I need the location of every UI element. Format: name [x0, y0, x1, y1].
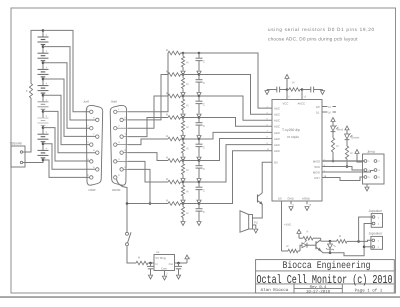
- wire battery bottom to J750 pin 2: [25, 160, 43, 163]
- ground filter right: [321, 89, 323, 91]
- ground AGND row 5 cap: [197, 157, 201, 161]
- ground AGND row 8 cap: [197, 222, 201, 226]
- junction SCK green LED: [346, 165, 349, 168]
- ground AGND row 8 resistor: [181, 222, 185, 226]
- junction row 7 cap: [198, 181, 201, 184]
- power VCC arrow: [285, 75, 289, 79]
- wire tap 3 to J1 pin: [43, 63, 90, 128]
- wire sense 4 J2 to divider row 4: [128, 118, 168, 137]
- svg-text:R: R: [339, 234, 341, 238]
- capacitor C9 VCC bypass: [270, 89, 277, 91]
- resistor R1a series: [168, 51, 181, 55]
- junction node cell tap 5: [42, 94, 45, 97]
- resistor R19 green LED: [345, 146, 348, 159]
- junction row 3 cap: [198, 95, 201, 98]
- junction row 8 cap: [198, 202, 201, 205]
- J2 pin 3: [114, 143, 117, 146]
- battery cell B4: [42, 79, 44, 86]
- svg-text:C: C: [203, 189, 205, 193]
- J1 pin 1: [90, 110, 93, 113]
- ground U1 GND pin: [290, 201, 292, 204]
- svg-text:T-ny260 dip: T-ny260 dip: [282, 128, 300, 132]
- svg-text:MOSI: MOSI: [313, 170, 320, 174]
- resistor R22 alarm series: [330, 240, 337, 242]
- svg-text:GND: GND: [288, 197, 294, 201]
- ground filter left: [267, 89, 270, 91]
- power VCC arrow Jprog: [355, 150, 359, 154]
- svg-text:F: F: [26, 89, 28, 93]
- resistor R2a series: [168, 73, 181, 77]
- wire row 5 to ADC4 pin: [199, 132, 272, 139]
- junction row 2 cap: [198, 73, 201, 76]
- battery cell B5: [42, 95, 44, 102]
- resistor R6a series: [168, 159, 181, 163]
- junction node cell tap 2: [42, 45, 45, 48]
- wire J2 pin stub: [123, 119, 128, 121]
- connector J5 Jspeaker2: [371, 236, 383, 249]
- svg-text:C: C: [203, 146, 205, 150]
- wire sense 8 J2 to divider row 8: [128, 169, 150, 203]
- resistor R7b shunt: [182, 182, 184, 185]
- J3 pin 1: [364, 160, 367, 163]
- svg-text:R: R: [166, 134, 168, 138]
- wire J2 pin stub: [117, 144, 128, 146]
- resistor R8a series: [168, 202, 181, 206]
- wire reg common: [164, 271, 166, 276]
- svg-text:ADC: ADC: [274, 119, 280, 123]
- resistor R3a series: [168, 94, 181, 98]
- svg-text:750mAh: 750mAh: [10, 142, 23, 146]
- capacitor C1: [198, 53, 200, 58]
- junction MISO red LED: [332, 160, 335, 163]
- wire row 8 to ADC7 pin: [199, 151, 272, 204]
- svg-text:Jcell: Jcell: [83, 100, 89, 104]
- svg-text:ADC: ADC: [274, 137, 280, 141]
- wire tap 7 to J1 pin: [43, 128, 90, 161]
- wire bottom rail to J4 pin 2 and J5 pin 2: [330, 224, 372, 256]
- wire tap 8 to J1 pin: [43, 144, 96, 169]
- svg-text:Out: Out: [169, 263, 174, 266]
- svg-text:R: R: [307, 231, 309, 234]
- J3 pin 5: [364, 176, 367, 179]
- junction row 5 divider: [182, 138, 185, 141]
- junction reg input cap: [149, 262, 152, 265]
- ground reg input cap: [148, 275, 152, 279]
- wire D3 to Q2 base: [307, 244, 316, 246]
- svg-text:DB9F: DB9F: [89, 188, 97, 192]
- svg-text:R: R: [187, 61, 189, 65]
- wire reg output: [175, 262, 188, 264]
- resistor R5b shunt: [182, 139, 184, 142]
- capacitor C6: [198, 161, 200, 166]
- junction AVCC rail: [301, 88, 304, 91]
- svg-text:Octal Cell Monitor (c) 2010: Octal Cell Monitor (c) 2010: [256, 273, 392, 287]
- J1 pin 5: [90, 176, 93, 179]
- ground AGND row 6 resistor: [181, 179, 185, 183]
- svg-text:SCK: SCK: [314, 165, 320, 169]
- connector J750 750mAh battery pack: [11, 146, 25, 167]
- LED D1 Red: [331, 118, 335, 122]
- svg-text:+: +: [46, 146, 48, 150]
- resistor R21 alarm base: [282, 250, 289, 252]
- svg-text:AVCC: AVCC: [298, 102, 306, 106]
- J2 pin 9: [120, 168, 123, 171]
- wire tap 6 to J1 pin: [43, 111, 96, 152]
- resistor R3b shunt: [182, 96, 184, 99]
- junction zener bottom: [329, 251, 332, 254]
- junction row 6 cap: [198, 159, 201, 162]
- wire J2 pin stub: [123, 152, 128, 154]
- junction row 5 cap: [198, 138, 201, 141]
- resistor R20 reg input: [136, 261, 148, 265]
- wire tap 9 to J1 pin: [43, 160, 90, 177]
- junction node cell tap 6: [42, 110, 45, 113]
- ground U1 AGND pin: [306, 201, 308, 204]
- svg-text:+: +: [46, 114, 48, 118]
- wire switch net down: [126, 204, 128, 233]
- svg-text:+: +: [46, 82, 48, 86]
- wire U1 D0 bottom to alarm driver: [281, 201, 283, 251]
- svg-text:choose ADC, D0 pins during pcb: choose ADC, D0 pins during pcb layout: [268, 37, 358, 42]
- speaker PZ1 piezo: [249, 215, 253, 230]
- svg-text:C: C: [203, 103, 205, 107]
- J1 pin 9: [96, 168, 99, 171]
- J1 pin 6: [96, 118, 99, 121]
- svg-text:or equiv: or equiv: [287, 135, 299, 139]
- J1 pin 8: [96, 151, 99, 154]
- U1 AVCC pin stub: [301, 90, 303, 100]
- wire row 2 to ADC1 pin: [199, 75, 272, 115]
- wire tap 4 to J1 pin: [43, 79, 96, 136]
- junction row 1 divider: [182, 52, 185, 55]
- capacitor C11 reg input: [150, 263, 152, 266]
- svg-text:5V Reg: 5V Reg: [156, 256, 166, 260]
- ground AGND row 4 cap: [197, 136, 201, 140]
- power VCC arrow reg output: [186, 259, 188, 263]
- svg-text:D0: D0: [274, 161, 278, 165]
- battery cell B8: [42, 144, 44, 151]
- junction node cell tap 3: [42, 62, 45, 65]
- capacitor C2: [198, 75, 200, 80]
- ground AGND row 2 resistor: [181, 93, 185, 97]
- resistor R6b shunt: [182, 161, 184, 164]
- svg-text:R: R: [166, 177, 168, 181]
- wire J2 pin stub: [117, 127, 128, 129]
- svg-text:R: R: [287, 244, 289, 248]
- wire sense 6 J2 to divider row 6: [128, 153, 168, 161]
- power VCC arrow alarm: [298, 234, 300, 239]
- U1 serial pin stubs D0 D1: [322, 106, 328, 108]
- wire Q1 emitter to speaker: [253, 204, 263, 218]
- wire fuse to J-batt-pack pin 1: [25, 98, 31, 152]
- J1 pin 4: [90, 160, 93, 163]
- svg-text:R: R: [187, 168, 189, 172]
- resistor R5a series: [168, 137, 181, 141]
- connector J2 DB9M Jbatt: [110, 105, 126, 185]
- svg-text:R: R: [337, 144, 339, 148]
- ground AGND row 2 cap: [197, 93, 201, 97]
- svg-text:ADC: ADC: [274, 125, 280, 129]
- resistor R18 red LED: [331, 138, 334, 152]
- resistor R2b shunt: [182, 75, 184, 78]
- ground reg common: [162, 276, 166, 280]
- wire Q2 collector rail: [320, 240, 322, 241]
- resistor R1b shunt: [182, 53, 184, 56]
- junction row 6 divider: [182, 159, 185, 162]
- svg-text:R: R: [187, 190, 189, 194]
- resistor R17 AVCC filter: [287, 89, 289, 91]
- svg-text:Jprog: Jprog: [367, 150, 375, 154]
- wire RST to Jprog pin 5: [322, 177, 364, 181]
- svg-text:R: R: [166, 156, 168, 160]
- wire row 8 left extension to switch tap: [127, 203, 168, 205]
- J3 pin 4: [374, 169, 377, 172]
- svg-text:R: R: [187, 211, 189, 215]
- svg-text:using serial resistors D0 D1 p: using serial resistors D0 D1 pins 19,20: [268, 27, 375, 32]
- capacitor C5: [198, 139, 200, 144]
- connector J1 DB9F cell harness: [86, 105, 102, 185]
- svg-text:D1: D1: [316, 111, 320, 115]
- svg-text:C: C: [203, 124, 205, 128]
- J2 pin 2: [114, 127, 117, 130]
- wire Q2 emitter to bottom rail: [321, 251, 330, 253]
- svg-text:+: +: [46, 49, 48, 53]
- ground AGND row 3 resistor: [181, 114, 185, 118]
- regulator U2 5V Reg: [154, 255, 175, 271]
- capacitor C7: [198, 182, 200, 187]
- svg-text:R: R: [166, 199, 168, 203]
- battery cell B6: [42, 111, 44, 118]
- ground Jprog: [366, 184, 368, 187]
- resistor R4b shunt: [182, 118, 184, 121]
- wire J2 pin 5 drop to power switch net: [117, 179, 128, 204]
- J1 pin 7: [96, 135, 99, 138]
- wire sense 3 J2 to divider row 3: [128, 96, 168, 128]
- wire J2 pin stub: [123, 136, 128, 138]
- junction row 7 divider: [182, 181, 185, 184]
- battery cell B7: [42, 128, 44, 135]
- svg-text:VCC: VCC: [283, 102, 289, 106]
- wire row 1 to ADC0 pin: [199, 53, 272, 108]
- svg-text:AGND: AGND: [302, 197, 310, 201]
- resistor R4a series: [168, 116, 181, 120]
- junction node cell tap 1: [42, 29, 45, 32]
- switch SW1 power: [126, 232, 129, 235]
- junction speaker low side: [363, 246, 366, 249]
- wire J2 pin stub: [117, 111, 128, 113]
- J2 pin 6: [120, 118, 123, 121]
- svg-text:+: +: [46, 33, 48, 37]
- svg-text:ADC: ADC: [274, 143, 280, 147]
- J2 pin 7: [120, 135, 123, 138]
- capacitor C8: [198, 204, 200, 209]
- capacitor C4: [198, 118, 200, 123]
- svg-text:R: R: [187, 104, 189, 108]
- svg-text:C: C: [203, 60, 205, 64]
- wire tap 1 to J1 pin: [43, 30, 90, 111]
- junction node cell tap 4: [42, 78, 45, 81]
- J3 pin 3: [364, 169, 367, 172]
- LED D3 alarm indicator: [300, 245, 302, 251]
- LED D2 Green: [345, 126, 349, 130]
- svg-text:C: C: [203, 81, 205, 85]
- junction row 1 cap: [198, 52, 201, 55]
- J1 pin 2: [90, 127, 93, 130]
- svg-text:Biocca Engineering: Biocca Engineering: [282, 260, 370, 272]
- svg-text:R: R: [166, 48, 168, 52]
- ground AGND row 1 resistor: [181, 71, 185, 75]
- wire sense 5 J2 to divider row 5: [128, 139, 168, 145]
- svg-text:DB9M: DB9M: [112, 188, 121, 192]
- ground AGND row 5 resistor: [181, 157, 185, 161]
- battery cell B2: [42, 47, 44, 54]
- junction node cell tap 7: [42, 126, 45, 129]
- J2 pin 5: [114, 176, 117, 179]
- junction zener top: [329, 240, 332, 243]
- svg-text:ADC: ADC: [274, 107, 280, 111]
- wire row 4 to ADC3 pin: [199, 118, 272, 127]
- wire sense 1 J2 to divider row 1: [128, 53, 168, 112]
- ground AGND row 1 cap: [197, 71, 201, 75]
- svg-text:D0: D0: [316, 105, 320, 109]
- connector J3 Jprog ISP header: [363, 154, 385, 184]
- svg-text:+: +: [46, 98, 48, 102]
- capacitor C10 AVCC bypass: [302, 89, 311, 91]
- junction row 2 divider: [182, 73, 185, 76]
- junction VCC rail: [286, 88, 289, 91]
- wire row 7 to ADC6 pin: [199, 145, 272, 182]
- wire MISO to Jprog pin 1: [322, 160, 365, 162]
- ground speaker: [254, 229, 258, 233]
- svg-text:R: R: [166, 91, 168, 95]
- zener D4 alarm clamp: [329, 241, 331, 244]
- svg-text:Green: Green: [351, 136, 360, 140]
- junction row 3 divider: [182, 95, 185, 98]
- svg-text:R: R: [293, 81, 295, 85]
- svg-text:Jspeaker: Jspeaker: [369, 209, 384, 213]
- wire sense 2 J2 to divider row 2: [128, 75, 168, 120]
- junction row 8 divider: [182, 202, 185, 205]
- wire row 3 to ADC2 pin: [199, 96, 272, 120]
- svg-text:R: R: [187, 82, 189, 86]
- svg-text:Jspeaker: Jspeaker: [369, 232, 384, 236]
- svg-text:Red: Red: [337, 128, 343, 132]
- ground AGND row 3 cap: [197, 114, 201, 118]
- J2 pin 8: [120, 151, 123, 154]
- junction node cell tap 9: [42, 159, 45, 162]
- junction sense 8 on row 8: [149, 202, 152, 205]
- transistor Q1: [257, 195, 259, 203]
- svg-text:Jbatt: Jbatt: [111, 100, 118, 104]
- J3 pin 6: [374, 176, 377, 179]
- junction alarm rail: [357, 240, 360, 243]
- svg-text:ADC: ADC: [274, 149, 280, 153]
- svg-text:Com: Com: [161, 267, 167, 270]
- ground reg output cap: [176, 275, 180, 279]
- junction switch tap on row 8: [126, 202, 129, 205]
- svg-text:C: C: [203, 167, 205, 171]
- svg-text:R: R: [166, 70, 168, 74]
- wire battery top to fuse: [31, 30, 43, 83]
- svg-text:10-27-2010: 10-27-2010: [306, 290, 331, 295]
- svg-text:ADC: ADC: [274, 131, 280, 135]
- wire switch to regulator input: [127, 246, 136, 263]
- wire Q2 collector to supply: [320, 238, 322, 240]
- svg-text:+LVE: +LVE: [284, 223, 291, 227]
- svg-text:R: R: [187, 125, 189, 129]
- resistor R23 alarm supply: [303, 236, 313, 240]
- ground AGND row 6 cap: [197, 179, 201, 183]
- J1 pin 3: [90, 143, 93, 146]
- svg-text:U2: U2: [156, 251, 160, 254]
- ground AGND row 4 resistor: [181, 136, 185, 140]
- ground AGND row 7 cap: [197, 200, 201, 204]
- wire row 6 to ADC5 pin: [199, 139, 272, 161]
- resistor R8b shunt: [182, 204, 184, 207]
- connector J4 Jspeaker: [371, 214, 382, 228]
- wire alarm rail to J5 pin 1: [359, 240, 372, 241]
- svg-text:R: R: [138, 256, 140, 260]
- svg-text:Rev 0.4: Rev 0.4: [310, 285, 327, 290]
- wire sense 7 J2 to divider row 7: [128, 161, 168, 182]
- J3 pin 2: [374, 160, 377, 163]
- battery cell B1: [42, 30, 44, 37]
- battery cell B3: [42, 63, 44, 70]
- svg-text:R: R: [187, 147, 189, 151]
- svg-text:C: C: [203, 210, 205, 214]
- wire alarm rail to J4 pin 1: [359, 217, 372, 241]
- junction row 4 cap: [198, 116, 201, 119]
- title block: [256, 260, 395, 293]
- wire speaker to ground: [253, 225, 256, 229]
- wire U1 D0 to Q1 collector: [262, 162, 272, 193]
- scan edge band bottom: [0, 296, 400, 298]
- svg-text:+: +: [46, 65, 48, 69]
- svg-text:ADC: ADC: [274, 113, 280, 117]
- capacitor C12 reg output: [178, 263, 180, 266]
- junction reg output cap: [177, 262, 180, 265]
- J2 pin 1: [114, 110, 117, 113]
- svg-text:R: R: [166, 113, 168, 117]
- svg-text:R: R: [351, 151, 353, 155]
- wire MOSI to Jprog pin 4: [322, 171, 374, 173]
- junction node cell tap 8: [42, 143, 45, 146]
- MCU U1 ATtiny260: [272, 100, 322, 202]
- ground AGND row 7 resistor: [181, 200, 185, 204]
- svg-text:PZ: PZ: [254, 221, 258, 225]
- wire J2 pin stub: [117, 160, 128, 162]
- junction row 4 divider: [182, 116, 185, 119]
- svg-text:MISO: MISO: [313, 159, 321, 163]
- resistor R7a series: [168, 180, 181, 184]
- svg-text:RST: RST: [314, 176, 320, 180]
- svg-text:D0: D0: [278, 197, 282, 201]
- wire J2 pin stub: [123, 168, 128, 170]
- J2 pin 4: [114, 160, 117, 163]
- fuse F1: [29, 84, 32, 99]
- capacitor C3: [198, 96, 200, 101]
- U1 VCC pin stub: [286, 90, 288, 100]
- wire SCK to Jprog pin 3: [322, 167, 364, 171]
- svg-text:+: +: [46, 130, 48, 134]
- wire tap 5 to J1 pin: [43, 95, 90, 144]
- wire tap 2 to J1 pin: [43, 47, 96, 120]
- transistor Q2 alarm: [315, 241, 317, 249]
